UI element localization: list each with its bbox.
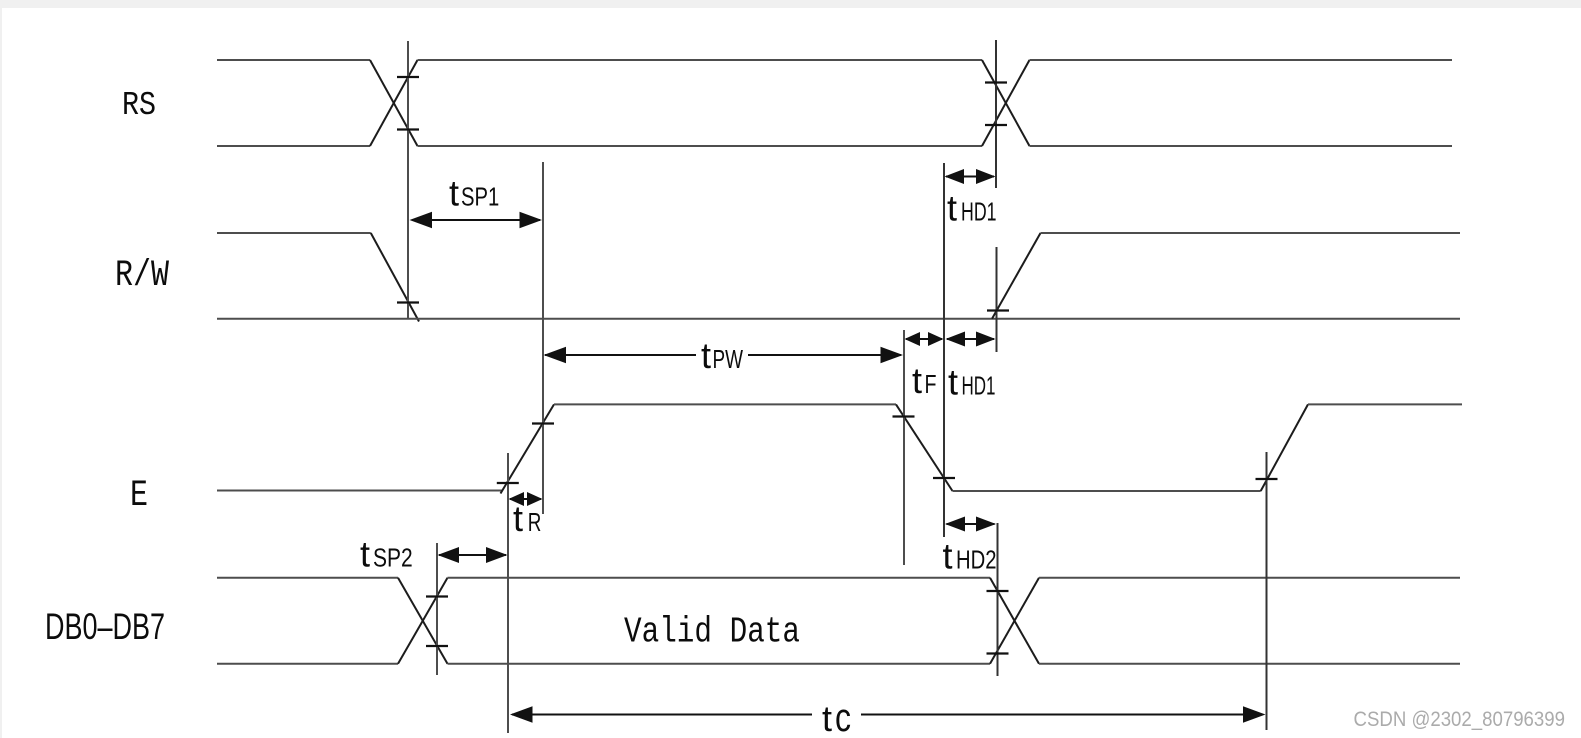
tick E rise2 <box>1256 478 1278 480</box>
arrow tHD1 mid right head <box>976 332 996 347</box>
arrow tPW left shaft <box>545 354 696 356</box>
ref line at cycle end x=1266.5 <box>1266 452 1268 730</box>
RW rising edge <box>992 233 1041 319</box>
arrow tHD2 right head <box>976 517 996 532</box>
tick RW fall <box>397 301 419 303</box>
wire E low rail seg1 <box>217 490 502 492</box>
DB crossover X2 rising leg <box>990 578 1039 664</box>
wire RS high rail seg2 <box>418 59 983 61</box>
DB crossover X1 rising leg <box>398 578 448 664</box>
arrow tHD2 shaft <box>947 523 995 525</box>
arrow tSP1 shaft <box>412 219 540 221</box>
arrow tF shaft <box>906 338 942 340</box>
ref line at E rise bottom x=508 <box>507 453 509 733</box>
arrow tHD1 top right head <box>976 169 996 184</box>
arrow tR left head <box>509 492 525 506</box>
tick RS X2 lower <box>985 124 1007 126</box>
arrow tF left head <box>905 332 921 346</box>
arrow tSP1 right head <box>520 212 543 228</box>
arrow tSP2 left head <box>438 547 460 563</box>
wire RS low rail seg2 <box>418 145 983 147</box>
ref line at E rise top x=543 <box>542 162 544 514</box>
arrow tC left shaft <box>512 714 812 716</box>
svg-text:t: t <box>360 533 370 574</box>
arrow tC right head <box>1243 706 1266 722</box>
svg-text:t: t <box>513 498 523 539</box>
ref line at E fall start x=904 <box>903 330 905 565</box>
arrow tSP2 right head <box>486 547 508 563</box>
svg-text:HD2: HD2 <box>956 544 997 574</box>
RS crossover X2 rising leg <box>982 60 1030 146</box>
arrow tPW right shaft <box>748 354 901 356</box>
ref line at E fall bottom x=944 <box>943 163 945 537</box>
arrow tPW right head <box>881 347 904 363</box>
wire RW low rail full <box>217 318 1460 320</box>
wire RS low rail seg1 <box>217 145 370 147</box>
tick RS X1 lower <box>397 128 419 130</box>
svg-text:R/W: R/W <box>115 255 170 297</box>
tick DB X1 lower <box>426 645 448 647</box>
svg-text:HD1: HD1 <box>962 370 996 400</box>
RS crossover X1 falling leg <box>370 60 418 146</box>
RW falling edge <box>371 233 419 322</box>
wire E high rail seg2 <box>1308 403 1462 405</box>
arrow tHD2 left head <box>945 517 965 532</box>
svg-text:CSDN @2302_80796399: CSDN @2302_80796399 <box>1354 708 1566 731</box>
wire RS high rail seg1 <box>217 59 370 61</box>
arrow tR shaft <box>510 498 541 500</box>
arrow tPW left head <box>544 347 567 363</box>
svg-text:SP1: SP1 <box>461 181 499 211</box>
svg-text:HD1: HD1 <box>961 196 997 226</box>
arrow tC right shaft <box>861 714 1263 716</box>
arrow tHD1 mid shaft <box>947 338 994 340</box>
browser chrome top band <box>0 0 1581 8</box>
wire DB low rail seg1 <box>217 663 398 665</box>
tick RW rise <box>987 309 1009 311</box>
wire DB low rail seg3 <box>1039 663 1460 665</box>
svg-text:E: E <box>130 475 148 517</box>
svg-text:DB0–DB7: DB0–DB7 <box>45 606 165 647</box>
wire DB high rail seg3 <box>1039 577 1460 579</box>
wire RS high rail seg3 <box>1030 59 1453 61</box>
arrow tSP1 left head <box>410 212 433 228</box>
wire DB high rail seg1 <box>217 577 398 579</box>
wire E low rail seg2 <box>953 490 1261 492</box>
svg-text:PW: PW <box>713 344 744 374</box>
wire RW high rail left <box>217 232 371 234</box>
ref line at RS hold x=996 upper <box>995 40 997 188</box>
svg-text:t: t <box>947 187 957 228</box>
arrow tHD1 mid left head <box>946 332 966 347</box>
svg-text:Valid Data: Valid Data <box>624 612 800 653</box>
arrow tHD1 top shaft <box>946 176 994 178</box>
svg-text:t: t <box>449 172 459 213</box>
svg-text:t: t <box>912 360 922 401</box>
arrow tF right head <box>928 332 944 346</box>
svg-text:F: F <box>925 369 937 399</box>
svg-text:t: t <box>948 361 958 402</box>
ref line at DB setup x=437 <box>436 543 438 675</box>
RS crossover X2 falling leg <box>982 60 1030 146</box>
arrow tC left head <box>510 706 533 722</box>
wire RS low rail seg3 <box>1030 145 1453 147</box>
E falling edge <box>896 404 953 491</box>
tick E rise1 upper <box>532 422 554 424</box>
tick DB X2 lower <box>987 652 1009 654</box>
RS crossover X1 rising leg <box>370 60 418 146</box>
svg-text:c: c <box>835 696 851 738</box>
svg-text:t: t <box>943 535 953 576</box>
tick RS X1 upper <box>397 76 419 78</box>
wire DB high rail seg2 <box>448 577 991 579</box>
ref line at RW hold x=996 middle <box>996 247 998 352</box>
svg-text:R: R <box>528 507 542 537</box>
tick RS X2 upper <box>985 81 1007 83</box>
E rising edge 2 <box>1261 404 1308 491</box>
DB crossover X2 falling leg <box>990 578 1039 664</box>
arrow tSP2 shaft <box>439 554 506 556</box>
wire E high rail seg1 <box>554 403 896 405</box>
svg-text:RS: RS <box>122 87 156 124</box>
tick DB X2 upper <box>987 590 1009 592</box>
svg-text:SP2: SP2 <box>373 542 413 572</box>
tick DB X1 upper <box>426 595 448 597</box>
browser chrome left band <box>0 0 2 738</box>
tick E fall upper <box>893 415 915 417</box>
tick E rise1 lower <box>497 482 519 484</box>
E rising edge 1 <box>501 404 555 493</box>
ref line at RS change x=408 <box>407 41 409 319</box>
svg-text:t: t <box>701 335 711 376</box>
wire RW high rail right <box>1041 232 1461 234</box>
DB crossover X1 falling leg <box>398 578 448 664</box>
svg-text:t: t <box>822 698 832 738</box>
arrow tHD1 top left head <box>945 169 965 184</box>
tick E fall lower <box>933 477 955 479</box>
arrow tR right head <box>527 492 543 506</box>
wire DB low rail seg2 <box>448 663 991 665</box>
ref line at DB hold x=997.5 lower <box>997 523 999 676</box>
